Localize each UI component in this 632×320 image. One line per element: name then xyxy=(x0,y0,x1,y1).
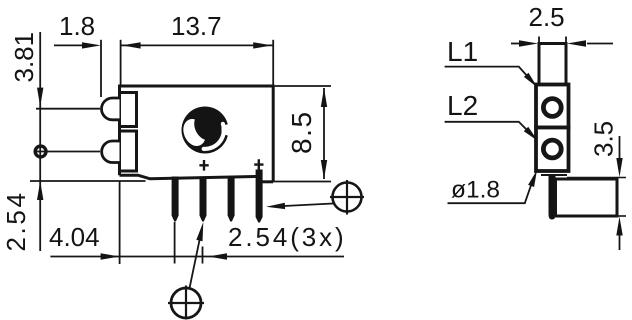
LED dome L1 (front view) xyxy=(102,98,120,120)
sleeve rectangle upper (front view) xyxy=(120,93,137,127)
svg-text:3.5: 3.5 xyxy=(589,121,619,157)
centerline L1 xyxy=(36,108,100,110)
body outline (front view) xyxy=(118,86,275,182)
svg-text:8.5: 8.5 xyxy=(286,110,317,154)
dimension 8.5 xyxy=(323,88,325,179)
pin 4 xyxy=(256,170,263,223)
svg-text:L2: L2 xyxy=(447,90,478,121)
datum target circle left xyxy=(35,146,46,157)
lens ring L2 (side view) xyxy=(543,140,561,158)
sleeve block 2 (side view) xyxy=(536,128,569,172)
flange (side view) xyxy=(539,44,566,85)
leader L1 xyxy=(445,67,533,83)
pin 3 xyxy=(228,177,235,222)
extension line bottom left xyxy=(30,180,146,182)
svg-text:ø1.8: ø1.8 xyxy=(451,177,500,204)
sleeve rectangle lower (front view) xyxy=(120,131,137,171)
pin 1 xyxy=(172,177,179,222)
svg-text:2.5: 2.5 xyxy=(529,2,565,32)
dimension 2.5 xyxy=(511,37,613,45)
polarity + mark (pin 2) xyxy=(199,160,208,171)
leader L2 xyxy=(445,122,534,137)
LED dome L2 (front view) xyxy=(102,141,120,163)
dimension 13.7 xyxy=(121,40,274,86)
logo xyxy=(179,107,230,154)
svg-text:3.81: 3.81 xyxy=(9,32,39,83)
lens ring L1 (side view) xyxy=(543,99,561,117)
target circle bottom xyxy=(168,222,204,320)
base block (side view) xyxy=(556,179,618,216)
svg-text:1.8: 1.8 xyxy=(59,11,95,41)
sleeve block 1 (side view) xyxy=(536,85,569,128)
polarity + mark (pin 4) xyxy=(254,159,263,170)
extension line top right xyxy=(275,85,331,87)
flange bottom line xyxy=(541,174,567,176)
dimension 3.5 xyxy=(619,136,621,250)
svg-text:L1: L1 xyxy=(447,36,478,67)
extension line bottom right xyxy=(273,181,331,183)
dimension 3.81 / 2.54 left column xyxy=(34,32,48,251)
pin (side view) xyxy=(549,176,556,220)
svg-text:2.54: 2.54 xyxy=(1,190,31,251)
svg-text:4.04: 4.04 xyxy=(49,222,100,252)
svg-text:2.54(3x): 2.54(3x) xyxy=(228,222,347,252)
extension lines 3.5 xyxy=(567,177,626,179)
leader dia 1.8 xyxy=(448,181,533,203)
svg-text:13.7: 13.7 xyxy=(171,11,222,41)
dimension 1.8 top xyxy=(54,40,101,97)
pin 2 xyxy=(200,177,207,222)
bottom dimension row 4.04 / 2.54(3x) xyxy=(50,181,344,264)
centerline L2 xyxy=(47,151,100,153)
target circle right xyxy=(266,180,364,215)
